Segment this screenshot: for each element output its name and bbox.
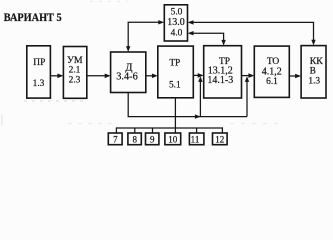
svg-text:ТР: ТР (169, 59, 180, 69)
svg-text:5.1: 5.1 (169, 81, 181, 91)
svg-text:10: 10 (168, 135, 178, 145)
block ТР2 13.1,2 14.1-3 (204, 46, 242, 98)
block УМ 2.1 2.3 (63, 47, 86, 99)
wire stub 9 (152, 128, 154, 133)
block 7 (108, 133, 122, 145)
wire ПР→УМ (51, 74, 64, 79)
wire up-arrow into ТР2→ТО line (245, 76, 249, 116)
block U0 top box 5.0/13.0/4.0 (164, 5, 187, 41)
block 9 (146, 133, 159, 145)
wire bus (116, 127, 223, 129)
wire ТР1 bottom → box 10 (174, 98, 176, 133)
wire stub 8 (134, 128, 136, 133)
wire Д→ТР1 (146, 74, 158, 79)
svg-text:2.1: 2.1 (69, 66, 81, 76)
svg-text:6.1: 6.1 (266, 77, 278, 87)
wire ТР2→ТО (242, 73, 255, 78)
svg-text:1.3: 1.3 (33, 79, 45, 89)
wire stub 12 (221, 127, 223, 133)
title ВАРИАНТ 5 (4, 11, 62, 24)
wire U0↔ТР2 (right short) (188, 31, 226, 46)
wire ТО→КК (289, 74, 301, 79)
svg-text:1.3: 1.3 (308, 76, 320, 86)
svg-text:3.4-6: 3.4-6 (116, 72, 137, 83)
svg-text:12: 12 (215, 135, 224, 145)
block ТО 4.1,2 6.1 (254, 46, 289, 97)
block Д 3.4-6 (111, 52, 146, 93)
svg-text:7: 7 (113, 135, 118, 145)
wire U0↔Д (corner left) (126, 20, 164, 52)
svg-text:9: 9 (150, 135, 155, 145)
wire up-arrow into ТР1→ТР2 line (198, 76, 202, 116)
wire Д bottom → long horizontal (128, 93, 247, 119)
block ТР1 5.1 (158, 46, 194, 98)
wire УМ→Д (87, 74, 111, 79)
svg-text:В: В (310, 67, 316, 77)
block 11 (189, 133, 204, 145)
svg-text:4.0: 4.0 (171, 29, 183, 39)
svg-text:ПР: ПР (33, 58, 45, 68)
svg-text:8: 8 (132, 135, 137, 145)
block 8 (128, 133, 141, 145)
svg-text:14.1-3: 14.1-3 (207, 75, 233, 86)
wire stub 7 (115, 127, 117, 133)
svg-text:ВАРИАНТ 5: ВАРИАНТ 5 (4, 11, 62, 24)
wire stub 11 (196, 128, 198, 133)
block КК В 1.3 (301, 46, 326, 98)
wire U0↔КК (top right long) (188, 20, 316, 45)
svg-text:2.3: 2.3 (69, 75, 81, 85)
svg-text:УМ: УМ (67, 55, 83, 66)
block ПР 1.3 (27, 46, 51, 98)
block 12 (213, 133, 228, 145)
wire ТР1→ТР2 (193, 73, 203, 78)
svg-text:11: 11 (191, 135, 200, 145)
block 10 (165, 133, 181, 145)
svg-text:13.0: 13.0 (167, 17, 185, 28)
